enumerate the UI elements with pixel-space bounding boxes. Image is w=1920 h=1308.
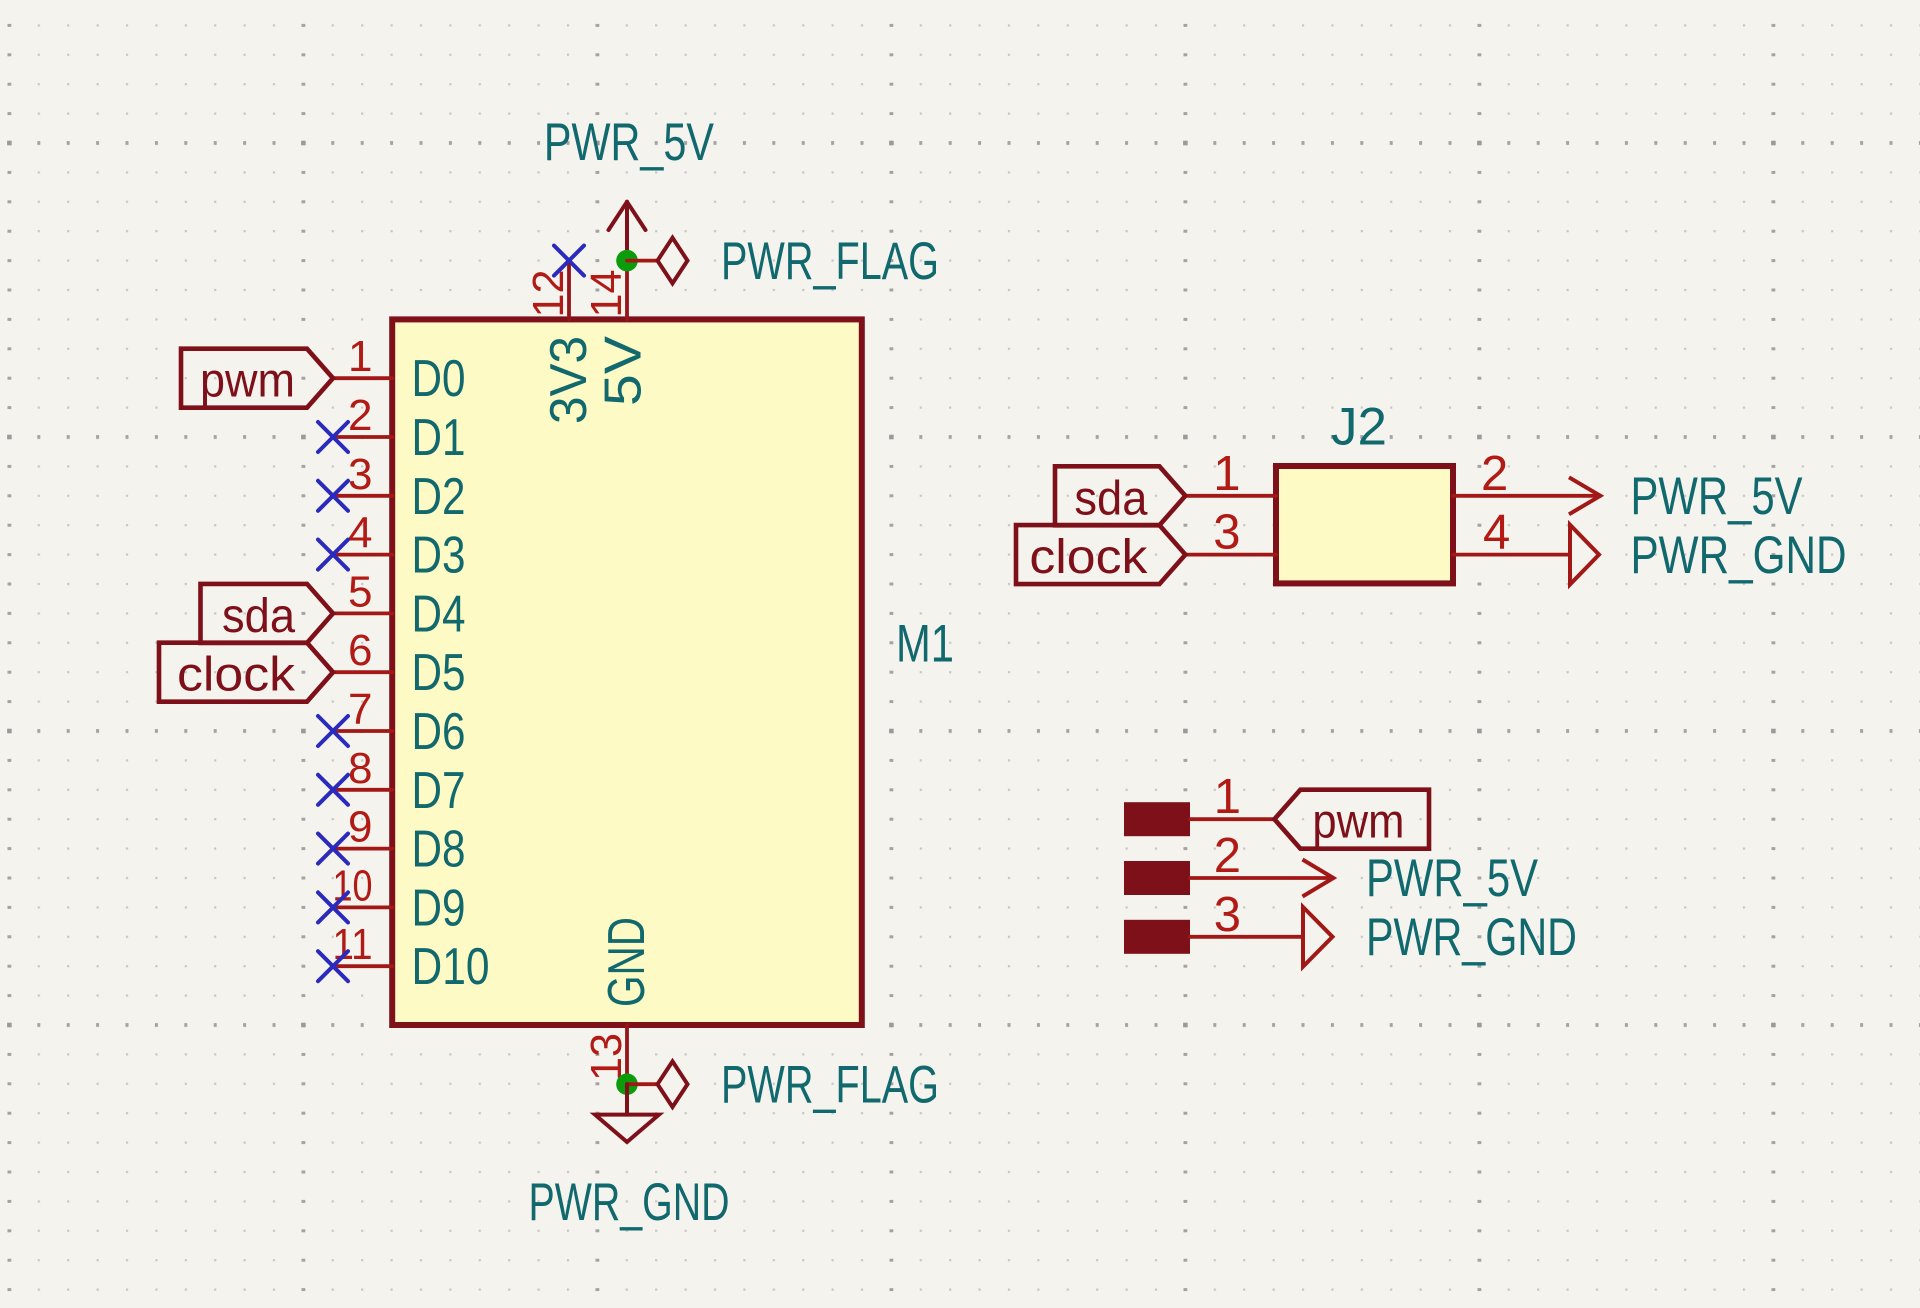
M1 pin name D2 (412, 468, 466, 526)
net label PWR_FLAG (top) (721, 232, 939, 291)
M1 pin 4 number (348, 509, 372, 558)
M1 pin 2 wire (333, 435, 392, 439)
M1 pin 7 wire (333, 729, 392, 733)
svg-text:8: 8 (348, 744, 372, 793)
svg-text:3: 3 (348, 450, 372, 499)
svg-text:12: 12 (524, 270, 573, 318)
svg-text:D5: D5 (412, 644, 466, 702)
power flag PWR_FLAG (top) diamond (658, 238, 688, 284)
pad 1 number (1214, 770, 1241, 824)
svg-text:clock: clock (177, 649, 296, 702)
svg-text:PWR_FLAG: PWR_FLAG (721, 232, 939, 291)
power flag PWR_FLAG (bottom) wire (627, 1082, 658, 1086)
svg-text:7: 7 (348, 685, 372, 734)
svg-text:6: 6 (348, 626, 372, 675)
M1 pin 6 number (348, 626, 372, 675)
svg-text:13: 13 (582, 1033, 631, 1081)
connector pad 3 (1124, 920, 1190, 954)
connector pad 1 (1124, 802, 1190, 836)
M1 pin 11 number (333, 920, 373, 969)
J2 pin 1 number (1213, 447, 1240, 501)
net label PWR_GND (J2 right) (1631, 526, 1847, 585)
svg-text:PWR_5V: PWR_5V (1631, 467, 1804, 526)
M1 pin 13 number (582, 1033, 631, 1081)
M1 pin name GND (598, 917, 656, 1007)
svg-text:D9: D9 (412, 879, 466, 937)
svg-text:14: 14 (582, 270, 631, 318)
M1 pin name D10 (412, 938, 490, 996)
svg-text:D0: D0 (412, 350, 466, 408)
svg-text:J2: J2 (1331, 398, 1387, 457)
power flag PWR_FLAG (top) wire (627, 259, 658, 263)
pad 3 number (1214, 888, 1241, 942)
net label PWR_GND (pad 3) (1366, 908, 1577, 967)
svg-text:D10: D10 (412, 938, 490, 996)
svg-text:D7: D7 (412, 762, 466, 820)
svg-text:1: 1 (1214, 770, 1241, 824)
M1 pin 1 number (348, 332, 372, 381)
no-connect X pin 9 (318, 834, 348, 864)
junction at pin 13 (616, 1073, 638, 1095)
no-connect X pin 2 (318, 422, 348, 452)
M1 pin name D0 (412, 350, 466, 408)
reference J2 (1331, 398, 1387, 457)
hierarchical label sda (M1 pin 5) (201, 584, 334, 643)
M1 pin name 3V3 (540, 336, 598, 424)
M1 pin name D4 (412, 585, 466, 643)
pad 3 wire (1190, 935, 1303, 939)
svg-text:3: 3 (1214, 888, 1241, 942)
J2 pin 4 wire (1453, 553, 1570, 557)
J2 pin 1 wire (1185, 494, 1276, 498)
M1 pin 3 number (348, 450, 372, 499)
svg-text:2: 2 (1481, 447, 1508, 501)
M1 pin 1 wire (333, 376, 392, 380)
svg-text:PWR_5V: PWR_5V (544, 113, 715, 172)
svg-text:PWR_FLAG: PWR_FLAG (721, 1055, 939, 1114)
svg-text:pwm: pwm (200, 355, 295, 408)
IC M1 body (392, 319, 862, 1025)
svg-text:9: 9 (348, 803, 372, 852)
M1 pin 12 wire (3V3) (567, 261, 571, 320)
hierarchical label pwm (M1 pin 1) (181, 349, 333, 408)
M1 pin name D5 (412, 644, 466, 702)
J2 pin 4 number (1483, 506, 1510, 560)
power flag PWR_FLAG (bottom) diamond (658, 1061, 688, 1107)
power symbol PWR_5V (609, 202, 646, 261)
svg-text:PWR_GND: PWR_GND (1366, 908, 1577, 967)
svg-text:1: 1 (348, 332, 372, 381)
M1 pin 4 wire (333, 553, 392, 557)
J2 pin 2 number (1481, 447, 1508, 501)
J2 pin 2 wire (1453, 494, 1600, 498)
M1 pin 13 wire (GND) (625, 1025, 629, 1084)
svg-text:D6: D6 (412, 703, 466, 761)
M1 pin 3 wire (333, 494, 392, 498)
svg-text:5V: 5V (595, 336, 653, 406)
arrow head PWR_5V (pad 2) (1303, 860, 1334, 897)
net label PWR_5V (pad 2) (1366, 849, 1539, 908)
no-connect X pin 11 (318, 951, 348, 981)
svg-text:1: 1 (1213, 447, 1240, 501)
pad 2 wire (1190, 876, 1333, 880)
M1 pin name D3 (412, 527, 466, 585)
J2 pin 3 wire (1185, 553, 1276, 557)
no-connect X pin 3 (318, 481, 348, 511)
pad 1 wire (1190, 817, 1274, 821)
svg-text:4: 4 (1483, 506, 1510, 560)
M1 pin 12 number (524, 270, 573, 318)
net label PWR_5V (J2 right) (1631, 467, 1804, 526)
M1 pin 14 number (582, 270, 631, 318)
svg-text:5: 5 (348, 567, 372, 616)
M1 pin 10 wire (333, 906, 392, 910)
open arrow PWR_GND (J2 pin 4) (1570, 525, 1599, 585)
svg-text:clock: clock (1029, 531, 1148, 584)
no-connect X pin 10 (318, 892, 348, 922)
junction at pin 14 (616, 250, 638, 272)
svg-text:sda: sda (222, 590, 295, 643)
svg-text:pwm: pwm (1312, 796, 1404, 849)
M1 pin name D8 (412, 821, 466, 879)
svg-text:2: 2 (348, 391, 372, 440)
svg-text:3V3: 3V3 (540, 336, 598, 424)
svg-text:D2: D2 (412, 468, 466, 526)
svg-text:2: 2 (1214, 829, 1241, 883)
M1 pin 6 wire (333, 670, 392, 674)
connector pad 2 (1124, 861, 1190, 895)
net label PWR_FLAG (bottom) (721, 1055, 939, 1114)
no-connect X pin 12 (554, 246, 584, 276)
svg-text:D8: D8 (412, 821, 466, 879)
svg-text:PWR_GND: PWR_GND (1631, 526, 1847, 585)
svg-text:3: 3 (1213, 506, 1240, 560)
J2 pin 3 number (1213, 506, 1240, 560)
open arrow PWR_GND (pad 3) (1303, 907, 1333, 967)
hierarchical label pwm (pad 1) (1274, 790, 1429, 849)
M1 pin 8 wire (333, 788, 392, 792)
M1 pin 5 wire (333, 612, 392, 616)
no-connect X pin 4 (318, 540, 348, 570)
M1 pin name D9 (412, 879, 466, 937)
svg-text:D4: D4 (412, 585, 466, 643)
svg-text:sda: sda (1074, 472, 1147, 525)
reference M1 (896, 615, 954, 674)
M1 pin name D6 (412, 703, 466, 761)
svg-text:PWR_5V: PWR_5V (1366, 849, 1539, 908)
hierarchical label clock (J2 pin 3) (1016, 525, 1185, 584)
svg-text:D3: D3 (412, 527, 466, 585)
M1 pin 7 number (348, 685, 372, 734)
net label PWR_5V (top) (544, 113, 715, 172)
hierarchical label clock (M1 pin 6) (159, 643, 333, 702)
M1 pin 9 wire (333, 847, 392, 851)
net label PWR_GND (bottom) (529, 1173, 730, 1232)
svg-text:GND: GND (598, 917, 656, 1007)
M1 pin 5 number (348, 567, 372, 616)
arrow head PWR_5V (J2 pin 2) (1569, 477, 1600, 514)
svg-text:D1: D1 (412, 409, 466, 467)
M1 pin 11 wire (333, 964, 392, 968)
svg-text:M1: M1 (896, 615, 954, 674)
no-connect X pin 8 (318, 775, 348, 805)
no-connect X pin 7 (318, 716, 348, 746)
connector J2 body (1276, 466, 1453, 583)
ground symbol PWR_GND (595, 1084, 659, 1142)
M1 pin 10 number (333, 861, 373, 910)
pad 2 number (1214, 829, 1241, 883)
hierarchical label sda (J2 pin 1) (1055, 466, 1185, 525)
M1 pin name D1 (412, 409, 466, 467)
svg-text:PWR_GND: PWR_GND (529, 1173, 730, 1232)
M1 pin 2 number (348, 391, 372, 440)
svg-text:4: 4 (348, 509, 372, 558)
M1 pin 14 wire (5V) (625, 261, 629, 320)
M1 pin name D7 (412, 762, 466, 820)
M1 pin name 5V (595, 336, 653, 406)
M1 pin 9 number (348, 803, 372, 852)
M1 pin 8 number (348, 744, 372, 793)
